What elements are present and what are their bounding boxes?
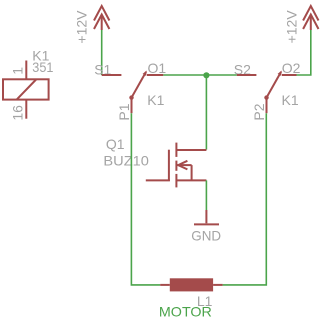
svg-text:Q1: Q1: [106, 136, 125, 152]
motor left lead: [160, 284, 170, 286]
gate bar: [168, 150, 170, 181]
svg-text:MOTOR: MOTOR: [159, 303, 212, 319]
body line: [176, 164, 191, 166]
svg-text:BUZ10: BUZ10: [103, 152, 149, 168]
P2 pin: [266, 98, 268, 114]
channel top segment: [175, 143, 177, 157]
body to source: [191, 165, 193, 180]
wire junction to Q1 drain: [205, 75, 207, 150]
wire +12V to S1: [101, 30, 103, 75]
blade P1-O1: [132, 72, 147, 98]
ground: [191, 210, 221, 243]
switch S2 (relay contact): [234, 60, 301, 121]
switch S1 (relay contact): [94, 60, 166, 121]
svg-text:K1: K1: [147, 92, 164, 108]
wire P1 to motor: [131, 113, 160, 285]
O1 contact lead: [147, 74, 164, 76]
svg-text:1: 1: [9, 67, 25, 75]
svg-text:O2: O2: [282, 60, 301, 76]
arrow outer chevron: [303, 6, 318, 21]
pivot dot: [129, 95, 133, 99]
svg-text:P1: P1: [116, 103, 132, 120]
wire O2 to +12V right: [297, 30, 311, 75]
blade P2-O2: [267, 72, 282, 98]
junction dot: [203, 72, 209, 78]
motor body: [170, 278, 213, 291]
svg-text:GND: GND: [191, 227, 221, 243]
arrow inner chevron: [303, 15, 318, 30]
source lead: [176, 179, 206, 181]
O2 contact lead: [282, 74, 297, 76]
blade arrowhead: [278, 71, 282, 76]
svg-text:351: 351: [32, 59, 53, 75]
supply +12V left: [74, 6, 110, 44]
wire P2 to motor: [223, 113, 267, 285]
supply +12V right: [283, 6, 318, 43]
channel middle segment: [175, 161, 177, 171]
pin 1 lead: [25, 61, 27, 80]
body arrowhead: [178, 161, 187, 170]
wire source to GND: [205, 180, 207, 210]
channel bottom segment: [175, 174, 177, 188]
relay K1 coil: [3, 48, 54, 121]
S1 fixed contact lead: [102, 74, 122, 76]
P1 pin: [131, 98, 133, 114]
blade arrowhead: [143, 71, 147, 76]
gate lead: [146, 179, 170, 181]
transistor Q1 BUZ10: [103, 136, 206, 187]
arrow stem: [101, 15, 103, 31]
svg-text:+12V: +12V: [283, 10, 299, 44]
svg-text:O1: O1: [148, 60, 167, 76]
motor right lead: [213, 284, 223, 286]
svg-text:+12V: +12V: [74, 10, 90, 44]
svg-text:K1: K1: [282, 92, 299, 108]
pivot dot: [264, 95, 268, 99]
coil diagonal: [17, 80, 36, 100]
S2 fixed contact lead: [237, 74, 257, 76]
arrow inner chevron: [94, 15, 109, 30]
svg-text:P2: P2: [251, 103, 267, 120]
arrow stem: [310, 15, 312, 31]
svg-text:16: 16: [9, 105, 25, 121]
pin 16 lead: [25, 100, 27, 119]
drain lead: [176, 149, 206, 151]
coil body rect: [3, 79, 49, 99]
gnd pin: [205, 210, 207, 223]
arrow outer chevron: [94, 6, 109, 21]
motor L1: [159, 278, 223, 319]
wire O1 to S2: [163, 74, 237, 76]
gnd bar: [194, 223, 219, 225]
